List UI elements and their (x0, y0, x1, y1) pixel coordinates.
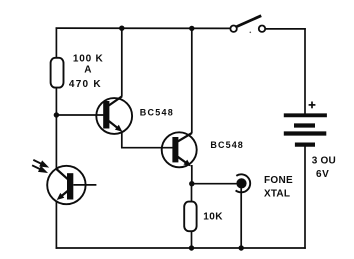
wire node A to Q1 base (56, 114, 104, 116)
wire Q1 collector to top rail (121, 28, 123, 96)
node A junction dot (54, 112, 59, 117)
svg-text:BC548: BC548 (210, 140, 244, 150)
label battery plus (309, 102, 316, 109)
light arrow 2 (32, 165, 48, 173)
wire node B to earphone (192, 183, 237, 185)
junction dot top rail / Q2 collector (189, 26, 194, 31)
wire node A to phototransistor collector (55, 115, 57, 170)
wire node B to R2 (191, 184, 193, 202)
svg-text:6V: 6V (316, 169, 329, 180)
transistor Q2 BC548 (162, 132, 197, 167)
wire phototransistor emitter to bottom rail (55, 201, 57, 249)
resistor R1 (51, 58, 64, 88)
junction dot bottom rail / earphone (239, 245, 244, 250)
wire right rail to battery positive (304, 28, 306, 114)
wire earphone to bottom rail (240, 187, 242, 249)
wire Q2 emitter to node B (191, 165, 193, 184)
resistor R2 10K (184, 202, 196, 232)
wire Q2 collector to top rail (191, 28, 193, 133)
transistor Q1 BC548 (96, 96, 132, 134)
svg-text:470 K: 470 K (69, 79, 102, 90)
svg-text:A: A (84, 65, 91, 76)
battery B1 (284, 115, 327, 144)
wire R1 to node A (55, 87, 57, 115)
svg-text:FONE: FONE (264, 175, 293, 186)
wire bottom rail (56, 247, 306, 249)
scan speck near switch (250, 32, 252, 34)
node B junction dot (189, 181, 194, 186)
svg-text:XTAL: XTAL (264, 188, 290, 199)
wire switch to right rail corner (265, 28, 306, 30)
wire R2 to bottom rail (191, 231, 193, 248)
junction dot bottom rail / R2 (189, 245, 194, 250)
switch S1 (230, 16, 265, 32)
svg-text:3 OU: 3 OU (312, 155, 336, 166)
wire Q1 emitter to Q2 base (121, 147, 174, 149)
svg-text:10K: 10K (203, 211, 223, 222)
wire left rail upper (top rail to R1) (55, 27, 57, 58)
phototransistor Q3 (47, 166, 96, 204)
light arrow 1 (33, 160, 49, 168)
svg-text:100 K: 100 K (73, 54, 104, 65)
earphone FONE XTAL (236, 174, 251, 192)
junction dot top rail / Q1 collector (119, 26, 124, 31)
wire Q1 emitter down (121, 131, 123, 147)
svg-text:BC548: BC548 (140, 108, 174, 118)
wire battery negative to bottom rail (304, 147, 306, 249)
wire top rail (56, 27, 231, 29)
